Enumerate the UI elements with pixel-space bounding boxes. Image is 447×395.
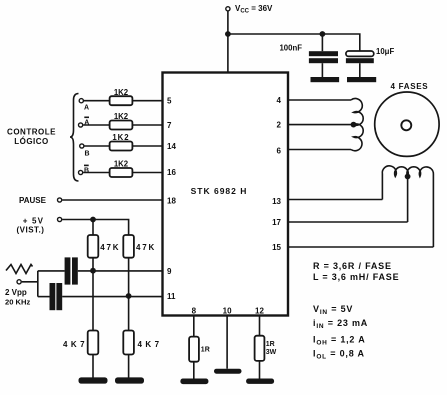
svg-text:16: 16 — [167, 168, 176, 177]
svg-text:12: 12 — [255, 307, 264, 316]
svg-text:A: A — [84, 105, 89, 112]
wire R9 to ground — [193, 362, 195, 379]
svg-text:11: 11 — [167, 292, 176, 301]
terminal A-bar — [79, 123, 83, 127]
wire pin 8 — [193, 317, 195, 337]
svg-text:47K: 47K — [100, 243, 120, 252]
svg-text:R = 3,6R / FASE: R = 3,6R / FASE — [313, 261, 392, 271]
svg-text:4: 4 — [277, 96, 282, 105]
svg-text:17: 17 — [272, 218, 281, 227]
resistor R3 1K2 — [110, 142, 133, 151]
wire pin 6 — [288, 149, 351, 151]
resistor R10 1R 3W — [255, 336, 265, 361]
ground bar pin8 — [180, 379, 208, 385]
brace — [70, 94, 79, 182]
capacitor C4 — [50, 283, 63, 310]
wire line to C3 — [38, 270, 65, 272]
wire signal to split — [22, 271, 38, 297]
wire 47K#2 down to 4K7#2 — [128, 258, 130, 331]
resistor R1 1K2 — [110, 96, 133, 105]
wire +5V rail — [62, 220, 128, 236]
svg-text:1K2: 1K2 — [114, 88, 129, 97]
terminal PAUSE — [58, 198, 62, 202]
terminal signal — [17, 280, 21, 284]
node coil tap — [351, 122, 357, 128]
svg-text:10μF: 10μF — [376, 47, 394, 56]
wire A to R1 — [84, 100, 110, 102]
wire B to R3 — [84, 145, 109, 147]
svg-text:5: 5 — [167, 97, 172, 106]
svg-text:7: 7 — [167, 121, 172, 130]
wire pin 12 — [259, 317, 261, 336]
resistor R8 4K7 — [123, 331, 134, 355]
wire VCC rail — [228, 34, 360, 51]
ground bar pin12 — [246, 379, 274, 384]
node VCC rail junction — [225, 31, 231, 37]
wire A-bar to R2 — [83, 124, 109, 126]
svg-text:1K2: 1K2 — [114, 160, 129, 169]
resistor R2 1K2 — [110, 121, 133, 130]
ground bar 2 — [115, 377, 144, 383]
svg-text:4 K 7: 4 K 7 — [63, 340, 85, 349]
svg-text:10: 10 — [223, 307, 232, 316]
ground under C1 — [311, 77, 340, 82]
svg-text:L = 3,6 mH/ FASE: L = 3,6 mH/ FASE — [313, 272, 399, 282]
svg-text:4 K 7: 4 K 7 — [138, 340, 160, 349]
svg-text:9: 9 — [167, 267, 172, 276]
svg-text:+ 5V: + 5V — [23, 217, 44, 226]
wire pin 15 — [288, 246, 433, 248]
wire pin 4 — [288, 99, 351, 101]
wire R4 to pin 16 — [132, 172, 162, 174]
node coil2 tap — [405, 174, 411, 180]
wire line to C4 — [38, 296, 50, 298]
svg-text:4 FASES: 4 FASES — [391, 82, 429, 91]
terminal VCC — [226, 7, 230, 11]
svg-text:15: 15 — [272, 243, 281, 252]
motor body — [375, 92, 439, 156]
svg-text:14: 14 — [167, 142, 176, 151]
ground bar pin10 — [214, 369, 242, 374]
wire C3 to pin 9 — [78, 270, 163, 272]
node 100nF tap — [320, 31, 326, 37]
terminal B — [80, 144, 84, 148]
terminal +5V — [58, 217, 62, 221]
wire to 47K#1 — [92, 220, 94, 236]
wire pin 13 — [288, 199, 382, 201]
svg-text:100nF: 100nF — [279, 44, 302, 53]
capacitor C3 — [65, 257, 78, 284]
svg-text:CONTROLE: CONTROLE — [7, 128, 56, 137]
svg-text:1R: 1R — [266, 341, 275, 348]
wire B-bar to R4 — [83, 172, 109, 174]
svg-text:20 KHz: 20 KHz — [5, 298, 31, 307]
terminal B-bar — [79, 170, 83, 174]
svg-text:1K2: 1K2 — [112, 133, 129, 142]
node pin11 junction — [126, 293, 132, 299]
wire R3 to pin 14 — [132, 145, 162, 147]
svg-text:B: B — [85, 150, 90, 157]
svg-text:STK 6982 H: STK 6982 H — [191, 186, 248, 196]
svg-text:LÓGICO: LÓGICO — [14, 137, 49, 146]
wire R1 to pin 5 — [132, 100, 162, 102]
terminal A — [79, 99, 83, 103]
svg-text:1K2: 1K2 — [114, 112, 129, 121]
svg-text:B: B — [84, 168, 89, 175]
IC U1 STK 6982 H — [163, 73, 289, 316]
svg-text:18: 18 — [167, 197, 176, 206]
wire R2 to pin 7 — [132, 124, 162, 126]
svg-text:6: 6 — [277, 147, 282, 156]
wire 47K#1 down to 4K7#1 — [92, 258, 94, 331]
wire C4 to pin 11 — [62, 296, 162, 298]
wire pin 2 — [288, 124, 354, 126]
node +5V to 47K#1 — [90, 217, 96, 223]
capacitor C1 100nF — [309, 51, 338, 77]
svg-text:(VIST.): (VIST.) — [17, 226, 45, 235]
svg-text:PAUSE: PAUSE — [19, 196, 47, 205]
svg-text:2 Vpp: 2 Vpp — [5, 288, 27, 297]
resistor R6 47K — [123, 235, 134, 258]
svg-text:2: 2 — [277, 121, 282, 130]
inductor L2 horizontal coil — [382, 166, 433, 247]
wire 100nF tap — [321, 34, 323, 51]
resistor R5 47K — [88, 235, 99, 258]
capacitor C2 10uF — [346, 51, 374, 77]
motor shaft — [401, 120, 411, 130]
resistor R7 4K7 — [88, 331, 99, 355]
wire 4K7#1 to ground — [92, 355, 94, 378]
wire VCC to IC top — [227, 11, 229, 72]
svg-text:8: 8 — [192, 307, 197, 316]
ground bar 1 — [79, 377, 108, 383]
svg-text:13: 13 — [272, 197, 281, 206]
svg-text:1R: 1R — [201, 347, 210, 354]
wire 4K7#2 to ground — [128, 355, 130, 378]
inductor L1 vertical coil — [351, 99, 363, 151]
signal source zigzag — [6, 265, 33, 274]
svg-text:3W: 3W — [266, 349, 277, 356]
resistor R9 1R — [189, 337, 199, 362]
wire pin 17 — [288, 177, 408, 223]
ground under C2 — [347, 77, 376, 82]
svg-text:47K: 47K — [136, 243, 156, 252]
wire PAUSE to pin 18 — [62, 199, 162, 201]
resistor R4 1K2 — [110, 168, 133, 177]
wire R10 to ground — [259, 361, 261, 379]
wire pin 10 to ground — [226, 317, 228, 369]
node pin9 junction — [90, 268, 96, 274]
